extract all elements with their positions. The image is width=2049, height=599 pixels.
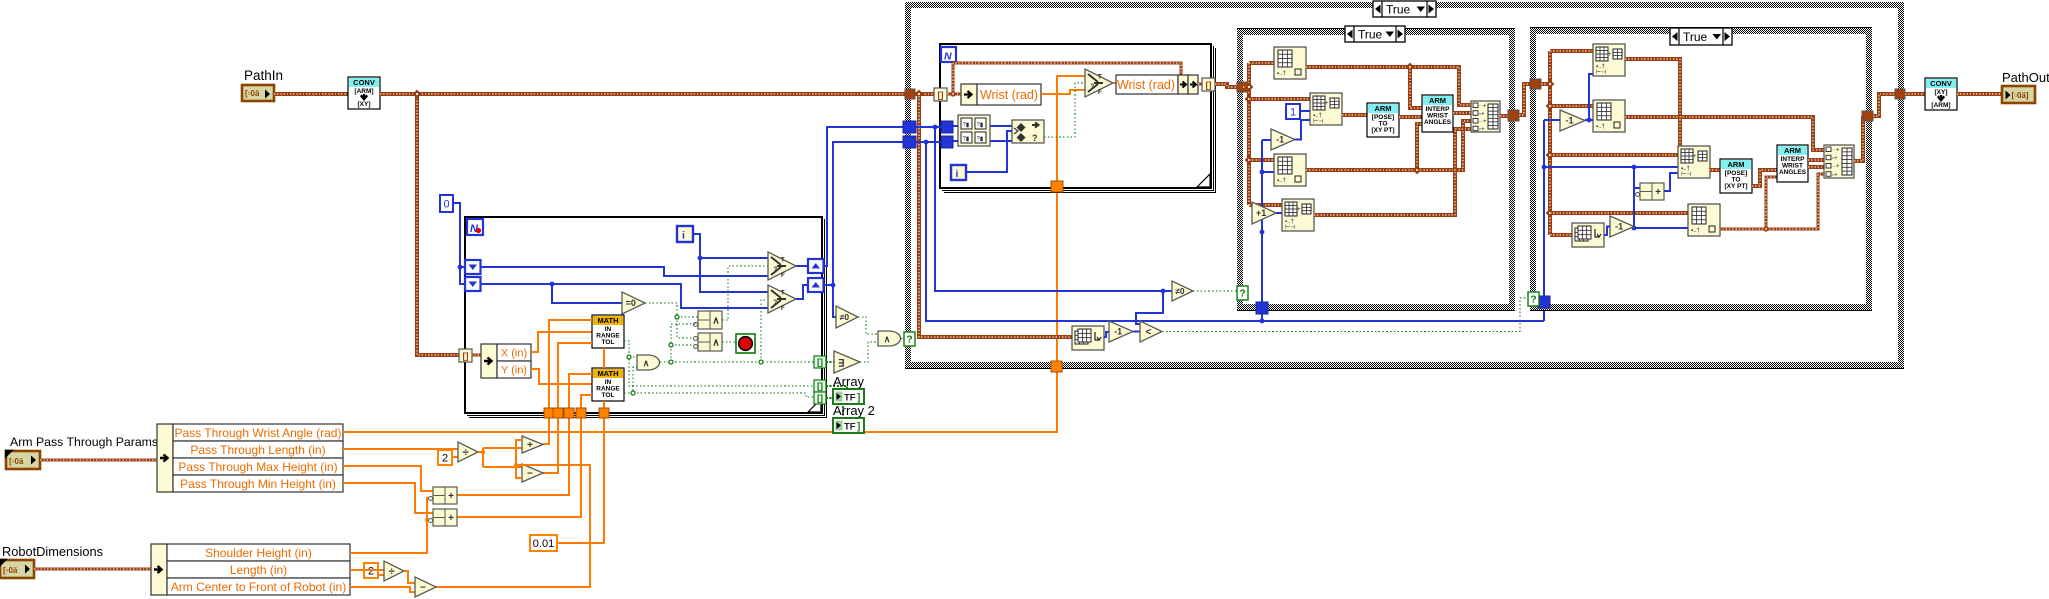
svg-text:∧: ∧ xyxy=(712,338,719,349)
decrement triangle case3 top xyxy=(1560,110,1585,131)
case structure (outer True case) frame xyxy=(905,2,1904,369)
cluster wire routing over top to bundle xyxy=(953,63,1181,94)
wire 0 to shift registers xyxy=(453,203,466,284)
svg-text:∃: ∃ xyxy=(838,359,844,370)
svg-text:[]: [] xyxy=(817,357,823,367)
PathIn control terminal xyxy=(242,85,274,101)
svg-text:2: 2 xyxy=(368,565,374,577)
svg-text:÷: ÷ xyxy=(389,566,395,578)
green wire neq0 to AND xyxy=(858,317,878,334)
svg-text:?: ? xyxy=(1032,133,1038,143)
shift register left bottom xyxy=(465,277,481,291)
svg-text:⊢⊣: ⊢⊣ xyxy=(1313,118,1323,125)
green wire MATH1 out xyxy=(624,341,814,386)
orange wire select to bundle xyxy=(1113,82,1116,84)
less than comparison xyxy=(1140,321,1162,342)
wire select2 out xyxy=(796,285,809,299)
blue wire down long to cases xyxy=(926,142,1544,321)
wire branch down to for-loop xyxy=(417,94,459,355)
svg-text:?▮: ?▮ xyxy=(963,123,970,129)
svg-text:··+: ··+ xyxy=(1832,148,1840,154)
svg-text:+: + xyxy=(527,440,533,451)
array wire to array size 2 xyxy=(1550,233,1572,237)
svg-text:+: + xyxy=(1693,154,1697,160)
svg-text:Pass Through Length (in): Pass Through Length (in) xyxy=(190,443,325,457)
junction on PathIn wire xyxy=(413,90,422,99)
svg-text:=0: =0 xyxy=(626,298,636,308)
decrement triangle case2 xyxy=(1271,129,1295,150)
svg-text:PathOut: PathOut xyxy=(2002,70,2049,85)
VI ARM POSE TO XYPT case2 xyxy=(1367,103,1399,137)
constant 1 xyxy=(1286,104,1300,119)
svg-text:1: 1 xyxy=(1290,106,1296,118)
array wire trunk case2 xyxy=(1243,63,1249,205)
orange wire min height row xyxy=(343,483,433,513)
blue wires into search icon xyxy=(916,127,941,142)
orange riser from robot dims chain xyxy=(436,440,590,587)
for loop (inner) frame xyxy=(940,44,1216,193)
build array case3 xyxy=(1824,145,1854,178)
green wire AND1 to select1 xyxy=(722,266,768,320)
wire branch to equals-zero xyxy=(552,284,622,303)
green wire AND-D out xyxy=(660,361,814,363)
orange wire arm center row xyxy=(350,587,415,592)
wire CONV to case tunnel xyxy=(380,92,905,96)
svg-text:T: T xyxy=(1098,75,1102,81)
svg-text:]: ] xyxy=(857,422,860,433)
svg-text:X (in): X (in) xyxy=(501,347,527,359)
green wire neq0 to case2 selector xyxy=(1193,290,1237,292)
Arm Pass Through Params terminal xyxy=(6,451,40,469)
svg-text:▫+: ▫+ xyxy=(1832,156,1838,162)
array wire to iconG xyxy=(1550,49,1593,53)
array wire trunk case3 xyxy=(1541,51,1550,235)
svg-text:<: < xyxy=(1145,327,1151,338)
constant 0.01 xyxy=(530,535,557,551)
shift register left top xyxy=(465,260,481,274)
green wire inrange to select xyxy=(1044,83,1085,137)
VI ARM INTERP WRIST ANGLES case2 xyxy=(1422,95,1453,132)
unbundle X Y xyxy=(481,344,497,378)
case2 selector terminal xyxy=(1237,286,1248,300)
array wire iconI out to build xyxy=(1625,117,1824,150)
comparison not-equal-zero small xyxy=(836,306,858,328)
green wire MATH2 out xyxy=(624,367,637,393)
orange wire compound1 to MATH2 hi xyxy=(457,374,592,495)
blue branch to M and compound xyxy=(1634,167,1688,228)
AND gate big case selector xyxy=(878,331,901,346)
svg-text:[]: [] xyxy=(463,351,469,361)
decrement triangle big case xyxy=(1109,321,1133,342)
svg-text:-1: -1 xyxy=(1565,116,1573,126)
svg-text:ANGLES: ANGLES xyxy=(1779,169,1807,176)
svg-text:Y (in): Y (in) xyxy=(501,364,527,376)
svg-text:i: i xyxy=(956,169,959,180)
bool array wire to Array indicator xyxy=(826,386,847,390)
svg-text:0.01: 0.01 xyxy=(533,538,554,550)
svg-text:+: + xyxy=(448,491,454,502)
svg-text:F: F xyxy=(781,273,785,279)
svg-text:T: T xyxy=(781,291,785,297)
cluster wire bundle to tunnel xyxy=(1198,83,1202,86)
blue wires around -1a xyxy=(1544,74,1593,120)
green wire less-than to case3 selector xyxy=(1162,298,1528,332)
replace array icon G xyxy=(1593,44,1625,76)
svg-text:÷: ÷ xyxy=(463,447,469,459)
decrement triangle case3 bottom xyxy=(1610,216,1634,237)
svg-text:CONV: CONV xyxy=(1930,79,1952,88)
svg-text:··+: ··+ xyxy=(1479,119,1487,125)
svg-text:F: F xyxy=(1098,90,1102,96)
svg-text:RobotDimensions: RobotDimensions xyxy=(2,544,103,559)
wire i to selects xyxy=(693,234,768,292)
subtract triangle bottom xyxy=(415,577,436,597)
build array case2 xyxy=(1471,101,1500,132)
svg-text:?: ? xyxy=(1091,84,1095,90)
svg-text:[▫0ä: [▫0ä xyxy=(9,457,24,466)
green wire or-array to AND big xyxy=(860,342,878,362)
orange wire wrist to select F xyxy=(1041,90,1085,94)
orange wire length row to divide xyxy=(343,448,458,450)
array wire iconD out xyxy=(1314,129,1471,215)
wire PathIn to CONV xyxy=(274,92,348,96)
index array icon I xyxy=(1593,100,1625,132)
svg-text:[XY PT]: [XY PT] xyxy=(1372,127,1395,134)
svg-text:[XY]: [XY] xyxy=(1935,89,1948,96)
array wire pose to interp xyxy=(1399,115,1422,119)
svg-text:[▫0ä]: [▫0ä] xyxy=(2012,91,2029,100)
array wires interp2 to build xyxy=(1808,160,1824,167)
blue riser case3 xyxy=(1544,120,1678,296)
svg-text:⊢⊣: ⊢⊣ xyxy=(1681,171,1691,178)
select function 1 xyxy=(768,252,796,280)
svg-text:+: + xyxy=(1655,187,1661,198)
array wire iconJ to pose2 xyxy=(1709,168,1720,172)
svg-text:PathIn: PathIn xyxy=(244,68,283,83)
case2 out tunnel xyxy=(1508,110,1519,121)
svg-text:]: ] xyxy=(857,393,860,404)
array wire to CONV2 xyxy=(1905,92,1925,96)
compound AND 2 xyxy=(698,333,722,351)
for-loop bottom tunnels orange xyxy=(544,408,554,418)
blue tunnels on case border xyxy=(903,121,916,133)
VI MATH IN RANGE TOL 1 xyxy=(592,315,624,348)
svg-text:⊢⊣: ⊢⊣ xyxy=(1285,224,1295,231)
array wire to replace2 xyxy=(1249,203,1282,207)
svg-text:0: 0 xyxy=(443,198,449,210)
orange wire divide2 to subtract2 xyxy=(404,571,415,583)
svg-text:True: True xyxy=(1386,2,1411,16)
unbundle RobotDimensions xyxy=(151,544,167,595)
wire shift row1 to select F xyxy=(481,267,768,276)
svg-text:TOL: TOL xyxy=(602,392,615,399)
svg-text:▫+: ▫+ xyxy=(1832,172,1838,178)
svg-text:?▮: ?▮ xyxy=(963,137,970,143)
svg-text:Pass Through Min Height (in): Pass Through Min Height (in) xyxy=(180,477,336,491)
array wire interp out xyxy=(1453,111,1471,115)
blue wire down to neq0 xyxy=(935,127,1172,291)
svg-text:··+: ··+ xyxy=(1479,104,1487,110)
wire X to MATH1 xyxy=(531,332,592,352)
array wire iconC out xyxy=(1306,124,1422,170)
junction brown inside case xyxy=(915,90,924,99)
outer case out tunnel xyxy=(1895,89,1905,99)
svg-text:Array 2: Array 2 xyxy=(833,403,875,418)
svg-text:Pass Through Max Height (in): Pass Through Max Height (in) xyxy=(178,460,337,474)
svg-text:TF: TF xyxy=(844,422,856,433)
indicator Array TF xyxy=(833,389,864,404)
svg-text:+: + xyxy=(1608,52,1612,58)
array wire iconB to pose xyxy=(1342,113,1367,117)
svg-text:Pass Through Wrist Angle (rad): Pass Through Wrist Angle (rad) xyxy=(175,426,342,440)
index array icon C xyxy=(1274,154,1306,186)
svg-text:Length (in): Length (in) xyxy=(230,563,287,577)
case selector label True (outer) xyxy=(1373,1,1436,17)
comparison equals 0 xyxy=(622,292,645,314)
VI CONV [ARM]->[XY] xyxy=(348,77,380,109)
svg-text:N: N xyxy=(944,51,952,63)
divide out branches xyxy=(478,448,522,467)
orange tunnel outer case bottom xyxy=(1051,361,1062,372)
svg-text:True: True xyxy=(1358,27,1383,41)
blue tunnels on inner loop border xyxy=(941,121,953,133)
VI CONV [XY]->[ARM] xyxy=(1925,78,1957,110)
svg-text:▪..†: ▪..† xyxy=(1277,71,1286,77)
array wire iconG out to iconJ top xyxy=(1625,59,1680,146)
svg-text:≠0: ≠0 xyxy=(1175,286,1185,296)
svg-text:+1: +1 xyxy=(1256,208,1266,218)
array wire down to array-size xyxy=(919,96,1072,337)
svg-text:[ARM]: [ARM] xyxy=(1931,102,1950,109)
subtract triangle xyxy=(522,464,543,482)
svg-text:[ARM]: [ARM] xyxy=(354,88,373,95)
inner iteration terminal xyxy=(951,165,966,180)
array wire build to tunnel xyxy=(1500,114,1509,118)
svg-text:··+: ··+ xyxy=(1832,164,1840,170)
green wire AND2 to stop xyxy=(722,341,736,343)
svg-text:-1: -1 xyxy=(1276,135,1284,145)
orange wire wrist angle row to inner select xyxy=(343,76,1085,432)
inner loop out tunnel xyxy=(1202,78,1215,91)
svg-text:⊢⊣: ⊢⊣ xyxy=(1596,69,1606,76)
svg-text:+: + xyxy=(1325,101,1329,107)
compound add 1 xyxy=(433,487,457,504)
divide by 2 bottom xyxy=(384,561,404,581)
case2 brown input tunnel xyxy=(1237,82,1248,92)
for loop (outer) frame xyxy=(465,217,827,418)
orange wire minus-out to MATH1 lo xyxy=(543,343,592,473)
svg-text:Array: Array xyxy=(833,374,865,389)
svg-text:−: − xyxy=(527,469,533,480)
svg-text:[]: [] xyxy=(817,393,823,403)
search array icon (4 glyph) xyxy=(958,115,990,146)
svg-text:+: + xyxy=(448,513,454,524)
svg-text:ARM: ARM xyxy=(1727,160,1744,169)
add triangle xyxy=(522,436,543,453)
compound add case3 xyxy=(1640,183,1664,200)
green index tunnels on loop right edge xyxy=(814,356,826,368)
or-array-elements xyxy=(834,351,860,373)
svg-text:?▮: ?▮ xyxy=(977,137,984,143)
RobotDimensions terminal xyxy=(0,560,34,578)
array wire to iconI xyxy=(1550,104,1593,108)
svg-text:−: − xyxy=(420,583,426,594)
orange wire length to divide2 xyxy=(350,570,384,575)
blue riser case2 xyxy=(1262,140,1274,302)
case selector label True (case3) xyxy=(1670,28,1732,45)
orange wire plus-out to MATH1 hi xyxy=(543,320,592,444)
svg-text:[▫0ä: [▫0ä xyxy=(3,566,18,575)
svg-text:MATH: MATH xyxy=(597,369,618,378)
bundle Wrist rad xyxy=(1116,75,1178,94)
svg-text:True: True xyxy=(1683,30,1708,44)
svg-text:+: + xyxy=(1297,207,1301,213)
index array icon A xyxy=(1274,47,1306,79)
array wire pose2 to interp2 xyxy=(1752,170,1777,186)
PathOut indicator terminal xyxy=(2002,86,2035,103)
svg-text:Arm Center to Front of Robot (: Arm Center to Front of Robot (in) xyxy=(171,580,346,594)
svg-text:?: ? xyxy=(774,267,778,273)
svg-text:ARM: ARM xyxy=(1784,146,1801,155)
orange wire max height row xyxy=(343,466,433,491)
svg-text:▪..†: ▪..† xyxy=(1277,178,1286,184)
wire select1 out xyxy=(796,265,809,267)
case2 blue tunnel bottom xyxy=(1256,302,1268,314)
iteration terminal i xyxy=(677,226,693,242)
svg-text:F: F xyxy=(781,306,785,312)
constant 2 bottom xyxy=(364,563,378,578)
bool array wire tunnel to or-array xyxy=(826,361,834,363)
array wire to iconJ xyxy=(1550,153,1678,157)
loop conditional stop terminal xyxy=(736,334,755,353)
cluster wire to unbundle2 xyxy=(34,568,151,571)
array wire inner loop to case2 xyxy=(1215,84,1237,87)
wire Y to MATH2 xyxy=(531,369,592,384)
svg-text:ANGLES: ANGLES xyxy=(1424,119,1452,126)
blue wire shiftreg1 up to case xyxy=(824,127,903,266)
svg-text:[]: [] xyxy=(938,90,944,100)
array size icon case3 xyxy=(1572,223,1604,247)
svg-text:MATH: MATH xyxy=(597,316,618,325)
in range and coerce icon xyxy=(1012,120,1044,143)
svg-text:∧: ∧ xyxy=(712,316,719,327)
array size icon big case xyxy=(1072,326,1104,350)
select function inner xyxy=(1085,69,1113,97)
AND gate D1 xyxy=(637,355,660,370)
svg-text:▫+: ▫+ xyxy=(1479,111,1485,117)
array wire to iconM xyxy=(1550,211,1688,215)
wires search to inrange xyxy=(953,126,1012,141)
comparison not-equal-zero big xyxy=(1172,281,1193,301)
blue wire branch to less-than xyxy=(1136,291,1163,324)
orange wire 0.01 tolerance xyxy=(556,348,604,543)
cluster wire iconM out xyxy=(1719,174,1824,229)
select function 2 xyxy=(768,285,796,313)
indicator Array 2 TF xyxy=(833,418,864,433)
cluster wire to unbundle1 xyxy=(40,459,157,462)
array wire to index1 xyxy=(1249,61,1274,65)
unbundle Wrist rad xyxy=(961,84,977,105)
orange wire shoulder height xyxy=(350,498,433,553)
case3 selector terminal xyxy=(1528,292,1539,306)
svg-text:▪..†: ▪..† xyxy=(1596,124,1605,130)
case3 brown input tunnel xyxy=(1530,79,1541,89)
VI ARM POSE TO XYPT case3 xyxy=(1720,159,1752,193)
VI ARM INTERP WRIST ANGLES case3 xyxy=(1777,145,1808,182)
VI MATH IN RANGE TOL 2 xyxy=(592,368,624,401)
svg-text:?: ? xyxy=(1530,295,1536,306)
svg-text:?▮: ?▮ xyxy=(977,123,984,129)
svg-text:TOL: TOL xyxy=(602,339,615,346)
svg-text:TF: TF xyxy=(844,393,856,404)
svg-text:ARM: ARM xyxy=(1374,104,1391,113)
bool array wire to Array 2 indicator xyxy=(826,398,843,419)
svg-text:▫+: ▫+ xyxy=(1479,127,1485,133)
svg-text:▪..†: ▪..† xyxy=(1691,228,1700,234)
case selector label True (case2) xyxy=(1345,26,1405,42)
svg-text:∧: ∧ xyxy=(884,334,891,344)
tunnel for-loop array in xyxy=(459,349,472,362)
replace array icon J xyxy=(1678,146,1710,178)
array wire to replace1 xyxy=(1249,97,1310,101)
blue wire shiftreg2 junction xyxy=(824,142,903,285)
unbundle Arm Pass Through Params xyxy=(157,424,173,492)
replace array icon B xyxy=(1310,93,1342,125)
svg-text:[XY]: [XY] xyxy=(358,101,371,108)
wire shift row2 to select2 F xyxy=(481,284,768,308)
svg-text:≠0: ≠0 xyxy=(840,312,850,322)
svg-text:Arm Pass Through Params: Arm Pass Through Params xyxy=(10,435,158,449)
cluster wire tunnel to unbundle wrist xyxy=(947,93,961,96)
svg-text:Wrist (rad): Wrist (rad) xyxy=(980,88,1038,102)
svg-text:[]: [] xyxy=(1206,80,1212,90)
array wire iconA out xyxy=(1306,67,1471,105)
svg-text:Wrist (rad): Wrist (rad) xyxy=(1117,78,1175,92)
svg-text:i: i xyxy=(682,230,685,242)
increment triangle case2 xyxy=(1252,202,1276,224)
case3 blue tunnel bottom xyxy=(1538,296,1550,308)
svg-text:T: T xyxy=(781,258,785,264)
svg-text:-1: -1 xyxy=(1615,222,1623,232)
constant 2 top xyxy=(438,450,452,465)
green wire =0 to AND nodes xyxy=(645,303,696,338)
compound AND 1 xyxy=(698,311,722,329)
for loop N count terminal with conditional dot xyxy=(467,219,483,235)
case3 out tunnel xyxy=(1862,111,1873,121)
index array icon M xyxy=(1688,204,1720,236)
svg-text:∧: ∧ xyxy=(643,358,650,368)
array wire to index2 xyxy=(1249,158,1274,162)
replace array icon D xyxy=(1282,199,1314,231)
indicator Array 2 TF xyxy=(833,418,864,433)
svg-text:-1: -1 xyxy=(1114,327,1122,337)
divide by 2 top xyxy=(458,442,478,462)
shift register right bottom xyxy=(808,278,824,292)
blue wire array size to minus1 xyxy=(1104,332,1109,337)
array wire case2 to case3 xyxy=(1519,84,1531,115)
case structure 2 frame xyxy=(1237,29,1515,311)
svg-text:Shoulder Height (in): Shoulder Height (in) xyxy=(205,546,312,560)
brown tunnel PathIn into case xyxy=(905,89,915,99)
blue wire i to inrange xyxy=(966,131,1012,172)
orange tunnel inner loop bottom xyxy=(1051,181,1063,192)
svg-text:[XY PT]: [XY PT] xyxy=(1725,183,1748,190)
svg-text:?: ? xyxy=(906,335,912,346)
inner loop array tunnel xyxy=(934,88,947,101)
case structure 3 frame xyxy=(1530,28,1872,311)
svg-text:?: ? xyxy=(774,300,778,306)
compound add 2 xyxy=(433,509,457,526)
